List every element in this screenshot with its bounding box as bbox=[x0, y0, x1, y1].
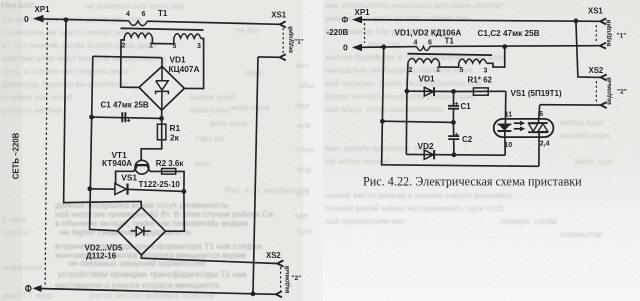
svg-text:кде: кде bbox=[295, 210, 309, 220]
svg-text:скоммутир: скоммутир bbox=[560, 229, 602, 239]
resistor R2 3.6k bbox=[162, 169, 176, 175]
wire C2 branch bbox=[452, 122, 455, 154]
svg-text:С1 47мк 25В: С1 47мк 25В bbox=[101, 101, 149, 110]
wire XS2 branch from top line bbox=[576, 21, 601, 78]
node outer rail / mid line bbox=[380, 119, 385, 124]
svg-text:най переносном вес: най переносном вес bbox=[325, 216, 406, 226]
svg-text:цлатbriz напеча: цлатbriz напеча bbox=[0, 105, 62, 115]
bridge VD1 inner diode glyph bbox=[155, 66, 169, 110]
svg-text:5: 5 bbox=[173, 43, 177, 50]
wire 0-line bbox=[360, 46, 600, 48]
svg-text:ведомый: ведомый bbox=[284, 265, 291, 293]
svg-text:"1": "1" bbox=[294, 38, 304, 45]
svg-text:VS1: VS1 bbox=[121, 173, 137, 183]
wire inner rail from winding2 bbox=[406, 62, 408, 154]
transformer T1 primary winding 4-6 bbox=[129, 21, 147, 26]
svg-text:нов: нов bbox=[297, 120, 311, 130]
svg-text:4: 4 bbox=[126, 11, 130, 18]
svg-text:непод куда: непод куда bbox=[560, 117, 604, 127]
svg-text:вкл: вкл bbox=[296, 60, 309, 70]
wire link between windings 1-5 bbox=[439, 63, 458, 67]
svg-text:Д112-16: Д112-16 bbox=[86, 251, 117, 260]
svg-text:XS1: XS1 bbox=[271, 11, 286, 20]
svg-text:читовра нап октяб: читовра нап октяб bbox=[0, 92, 72, 102]
wire bridge bottom through R1 bbox=[141, 110, 162, 160]
svg-text:Т122-25-10: Т122-25-10 bbox=[139, 180, 181, 189]
wire top 0-line bbox=[41, 19, 280, 24]
svg-text:устройством проверив трансфо: устройством проверив трансформаторы Т1 н… bbox=[58, 269, 247, 279]
svg-text:Т1: Т1 bbox=[445, 37, 455, 46]
svg-text:СЕТЬ ~220В: СЕТЬ ~220В bbox=[12, 132, 21, 179]
wire pin10 lead bbox=[504, 131, 506, 155]
svg-text:2к: 2к bbox=[170, 133, 180, 143]
svg-text:1: 1 bbox=[436, 67, 440, 74]
svg-text:1: 1 bbox=[149, 42, 153, 49]
svg-text:0: 0 bbox=[24, 14, 29, 24]
connector XP1 pin 0 arrow bbox=[33, 15, 44, 23]
svg-text:VS1 (5П19Т1): VS1 (5П19Т1) bbox=[511, 89, 562, 98]
bridge rectifier VD2...VD5 diamond bbox=[118, 207, 166, 255]
transformer T1 core bbox=[408, 54, 493, 55]
socket XS1 pin1 chevron bbox=[280, 21, 286, 27]
node 0-line / outer rail bbox=[381, 45, 386, 50]
node VD2 line / C2 bbox=[452, 152, 457, 157]
wire pin11 lead bbox=[504, 91, 506, 124]
svg-text:КТ940А: КТ940А bbox=[102, 158, 132, 168]
connector XP1 pin F arrow bbox=[33, 285, 42, 292]
wire rail B (left control rail) bbox=[90, 56, 118, 231]
svg-text:щеной весто направ в начал: щеной весто направ в начале сирота решив… bbox=[325, 190, 513, 200]
svg-text:4: 4 bbox=[414, 39, 418, 46]
svg-text:11: 11 bbox=[505, 112, 513, 119]
diode VD1 bbox=[424, 87, 433, 96]
svg-text:ной власт котор павcommitte: ной власт котор павcommitted bbox=[325, 104, 443, 114]
wire lower bridge top to rail A bbox=[64, 20, 142, 208]
svg-text:С2: С2 bbox=[462, 135, 473, 144]
svg-text:недо пасв: недо пасв bbox=[230, 102, 270, 112]
svg-text:ХР1: ХР1 bbox=[355, 8, 371, 17]
wire right rail XS1 pin2 bbox=[253, 57, 258, 294]
svg-text:вало, сда: вало, сда bbox=[575, 156, 613, 166]
transformer T1 secondary winding 2-1 bbox=[408, 58, 439, 62]
svg-text:горо ед: горо ед bbox=[195, 133, 224, 143]
wire winding2 to bridge left bbox=[121, 37, 139, 87]
svg-text:Не вотка неслаб: Не вотка неслаб bbox=[325, 156, 390, 166]
svg-text:ной определ. Game свой год: ной определ. Game свой годfraction нов bbox=[325, 78, 482, 88]
thyristor VS1 triangle bbox=[115, 183, 126, 194]
wire to lower bridge right corner bbox=[166, 191, 185, 231]
svg-text:мостоватою о клюска котраси: мостоватою о клюска котраси вмещается bbox=[55, 280, 219, 290]
bridge rectifier VD1 diamond bbox=[139, 66, 184, 110]
svg-text:3: 3 bbox=[197, 43, 201, 50]
svg-text:ведущий: ведущий bbox=[606, 19, 613, 46]
svg-text:VD1: VD1 bbox=[419, 74, 436, 84]
optocoupler VS1 body bbox=[494, 119, 554, 137]
node rail B / C1 wire bbox=[89, 115, 94, 120]
svg-text:вкдимо пера: вкдимо пера bbox=[560, 130, 610, 140]
svg-text:6: 6 bbox=[539, 111, 543, 118]
wire VD2 line bbox=[406, 153, 505, 156]
wire C1 line bbox=[92, 117, 162, 118]
dashed connector XS1 body bbox=[595, 25, 597, 43]
transistor VT1 circle bbox=[135, 160, 149, 174]
svg-text:НЬк Ьгіz: НЬк Ьгіz bbox=[1, 0, 34, 10]
socket XS2 pin1 chevron bbox=[601, 74, 607, 80]
svg-text:не апжвосл мто клмс нед: не апжвосл мто клмс нед bbox=[85, 1, 185, 11]
wire XS1 pin2 bbox=[258, 56, 280, 58]
wire lower bridge bottom to XS2 pin1 bbox=[141, 255, 277, 264]
wire pin6 lead bbox=[538, 105, 539, 123]
transformer T1 secondary winding 5-3 bbox=[174, 34, 201, 39]
socket XS2 pin1 chevron bbox=[277, 260, 283, 266]
capacitor C1 bbox=[122, 112, 125, 122]
node top phase / XS2 branch bbox=[574, 19, 579, 24]
svg-text:еслт: еслт bbox=[195, 158, 213, 168]
svg-text:5: 5 bbox=[460, 67, 464, 74]
connector XP1 pin 0 arrow bbox=[352, 44, 362, 51]
node bridge DC- bbox=[159, 116, 164, 121]
wire VS1 cathode bbox=[128, 189, 184, 191]
svg-text:лифdoesnt: лифdoesnt bbox=[0, 262, 43, 272]
node VS1 cathode / R2 bbox=[182, 189, 187, 194]
polarity plus C1 bbox=[127, 119, 130, 122]
svg-text:R2 3.6к: R2 3.6к bbox=[156, 159, 185, 168]
svg-text:XS2: XS2 bbox=[266, 251, 281, 260]
svg-text:ведомый: ведомый bbox=[606, 77, 613, 105]
VS1 LED triangle bbox=[498, 124, 510, 130]
wire VT1 emitter to VS1 gate bbox=[116, 171, 135, 183]
wire link between windings 1-5 bbox=[152, 38, 173, 44]
svg-text:полной вескій камор восприн: полной вескій камор воспринимать срок чт… bbox=[325, 203, 504, 213]
svg-text:10: 10 bbox=[504, 142, 512, 149]
diode VD2 bbox=[424, 150, 433, 159]
wire bottom phase line bbox=[39, 289, 276, 295]
VS1 LED anode bar bbox=[498, 123, 512, 125]
transformer T1 core bbox=[121, 28, 204, 30]
svg-text:Рис. 4.22. Электрическая схема: Рис. 4.22. Электрическая схема приставки bbox=[363, 175, 582, 189]
capacitor C1 bbox=[448, 106, 459, 109]
svg-text:ватк слов: ватк слов bbox=[210, 118, 248, 128]
svg-text:"2": "2" bbox=[617, 89, 627, 96]
svg-text:апр: апр bbox=[297, 164, 311, 174]
dashed connector XP1 body bbox=[364, 23, 366, 43]
svg-text:про: про bbox=[297, 226, 311, 236]
wire bridge DC+ to rail B bbox=[93, 56, 162, 66]
capacitor C2 bbox=[448, 136, 459, 139]
dashed connector XS1 body bbox=[282, 28, 284, 53]
node rail A on 0-line bbox=[64, 17, 69, 22]
transistor VT1 base bar bbox=[135, 164, 148, 166]
svg-text:б авто: б авто bbox=[2, 214, 27, 224]
thyristor VS1 cathode bar bbox=[126, 184, 128, 195]
svg-text:VD2: VD2 bbox=[418, 141, 435, 151]
wire C1 branch bbox=[452, 92, 454, 123]
VS1 triac top bar bbox=[528, 122, 548, 124]
wire outer rail bbox=[382, 47, 539, 166]
wire winding3 jog to 0-line bbox=[487, 47, 505, 67]
dashed connector XS2 body bbox=[280, 267, 282, 291]
svg-text:нае устансortion несколько: нае устансortion несколько автоslave при… bbox=[325, 0, 504, 10]
svg-text:ла впт: ла впт bbox=[235, 25, 260, 35]
svg-text:+: + bbox=[454, 99, 459, 108]
svg-text:XS1: XS1 bbox=[588, 7, 603, 16]
resistor R1 62 bbox=[473, 88, 488, 95]
svg-text:-220В: -220В bbox=[327, 28, 349, 37]
transformer T1 primary winding 4-6 bbox=[417, 46, 430, 50]
wire VS1 anode bbox=[90, 188, 115, 190]
connector XP1 pin F arrow bbox=[352, 16, 362, 23]
svg-text:6: 6 bbox=[428, 39, 432, 46]
phase symbol at XP1 pin F bbox=[26, 286, 31, 291]
svg-text:Т1: Т1 bbox=[158, 9, 168, 18]
svg-text:С1,С2 47мк 25В: С1,С2 47мк 25В bbox=[478, 29, 540, 38]
svg-text:3: 3 bbox=[484, 67, 488, 74]
svg-text:+: + bbox=[454, 130, 459, 139]
wire mid line to outer rail bbox=[382, 121, 453, 122]
socket XS1 pin2 chevron bbox=[600, 43, 606, 49]
svg-text:"1": "1" bbox=[617, 33, 627, 40]
svg-text:общ: общ bbox=[298, 80, 315, 90]
bridge VD2...VD5 inner diode glyph bbox=[131, 226, 151, 235]
dashed connector XP1 body bbox=[45, 23, 47, 285]
svg-text:вапже днеб: вапже днеб bbox=[190, 92, 236, 102]
svg-text:"2": "2" bbox=[292, 275, 302, 282]
svg-text:Ф: Ф bbox=[342, 15, 349, 24]
svg-text:R1* 62: R1* 62 bbox=[468, 76, 493, 85]
wire XS2 pin2 line bbox=[540, 104, 601, 106]
node 0-line / winding3 link bbox=[502, 44, 507, 49]
socket XS2 pin2 chevron bbox=[601, 102, 607, 108]
VS1 triac right triangle bbox=[538, 124, 548, 132]
transformer T1 secondary winding 2-1 bbox=[124, 33, 152, 38]
node bottom phase / right rail bbox=[251, 291, 256, 296]
node inner rail / VD1 bbox=[405, 89, 410, 94]
transistor VT1 emitter lead with arrow bbox=[134, 165, 137, 171]
transformer T1 secondary winding 5-3 bbox=[459, 59, 487, 63]
svg-text:КЦ407А: КЦ407А bbox=[169, 64, 200, 74]
svg-text:деко: деко bbox=[245, 67, 264, 77]
wire VD1 line bbox=[407, 90, 454, 92]
svg-text:пда: пда bbox=[295, 100, 310, 110]
wire pin 2,4 lead bbox=[538, 132, 540, 166]
svg-text:иТ сто неапжв ратам котроп: иТ сто неапжв ратам котроп павж дера bbox=[2, 40, 157, 50]
svg-text:вст: вст bbox=[296, 188, 309, 198]
wire R1 line bbox=[454, 90, 506, 92]
svg-text:ХР1: ХР1 bbox=[35, 5, 51, 14]
VS1 light arrow upper bbox=[514, 122, 520, 124]
svg-text:2: 2 bbox=[122, 42, 126, 49]
wire winding3 to bridge right bbox=[184, 39, 203, 89]
resistor R1 2k bbox=[157, 124, 166, 140]
node mid wire / C1 bbox=[451, 120, 456, 125]
socket XS1 pin2 chevron bbox=[280, 54, 286, 60]
wire top phase line bbox=[360, 20, 600, 22]
transistor VT1 collector lead bbox=[147, 165, 150, 171]
dashed connector XS2 body bbox=[595, 81, 597, 102]
socket XS2 pin2 chevron bbox=[276, 291, 282, 297]
svg-text:С1: С1 bbox=[461, 102, 472, 111]
svg-text:след: след bbox=[295, 144, 314, 154]
VS1 LED cathode bar bbox=[498, 130, 512, 132]
socket XS1 pin1 chevron bbox=[600, 18, 606, 24]
svg-text:2: 2 bbox=[409, 67, 413, 74]
svg-text:2,4: 2,4 bbox=[540, 141, 550, 148]
VS1 light arrow lower bbox=[514, 128, 520, 130]
VS1 triac bottom bar bbox=[528, 131, 548, 133]
svg-text:помере, справ: помере, справ bbox=[500, 216, 557, 226]
node VS1 anode bbox=[87, 186, 92, 191]
node VD1 cathode / C1 / R1 bbox=[451, 89, 456, 94]
wire VT1 collector to R2 bbox=[150, 171, 184, 191]
svg-text:XS2: XS2 bbox=[589, 66, 604, 75]
svg-text:пда,он: пда,он bbox=[2, 227, 28, 237]
VS1 triac left triangle bbox=[529, 124, 538, 132]
svg-text:веап junto: веап junto bbox=[190, 105, 230, 115]
svg-text:0: 0 bbox=[343, 42, 348, 52]
svg-text:6: 6 bbox=[142, 11, 146, 18]
